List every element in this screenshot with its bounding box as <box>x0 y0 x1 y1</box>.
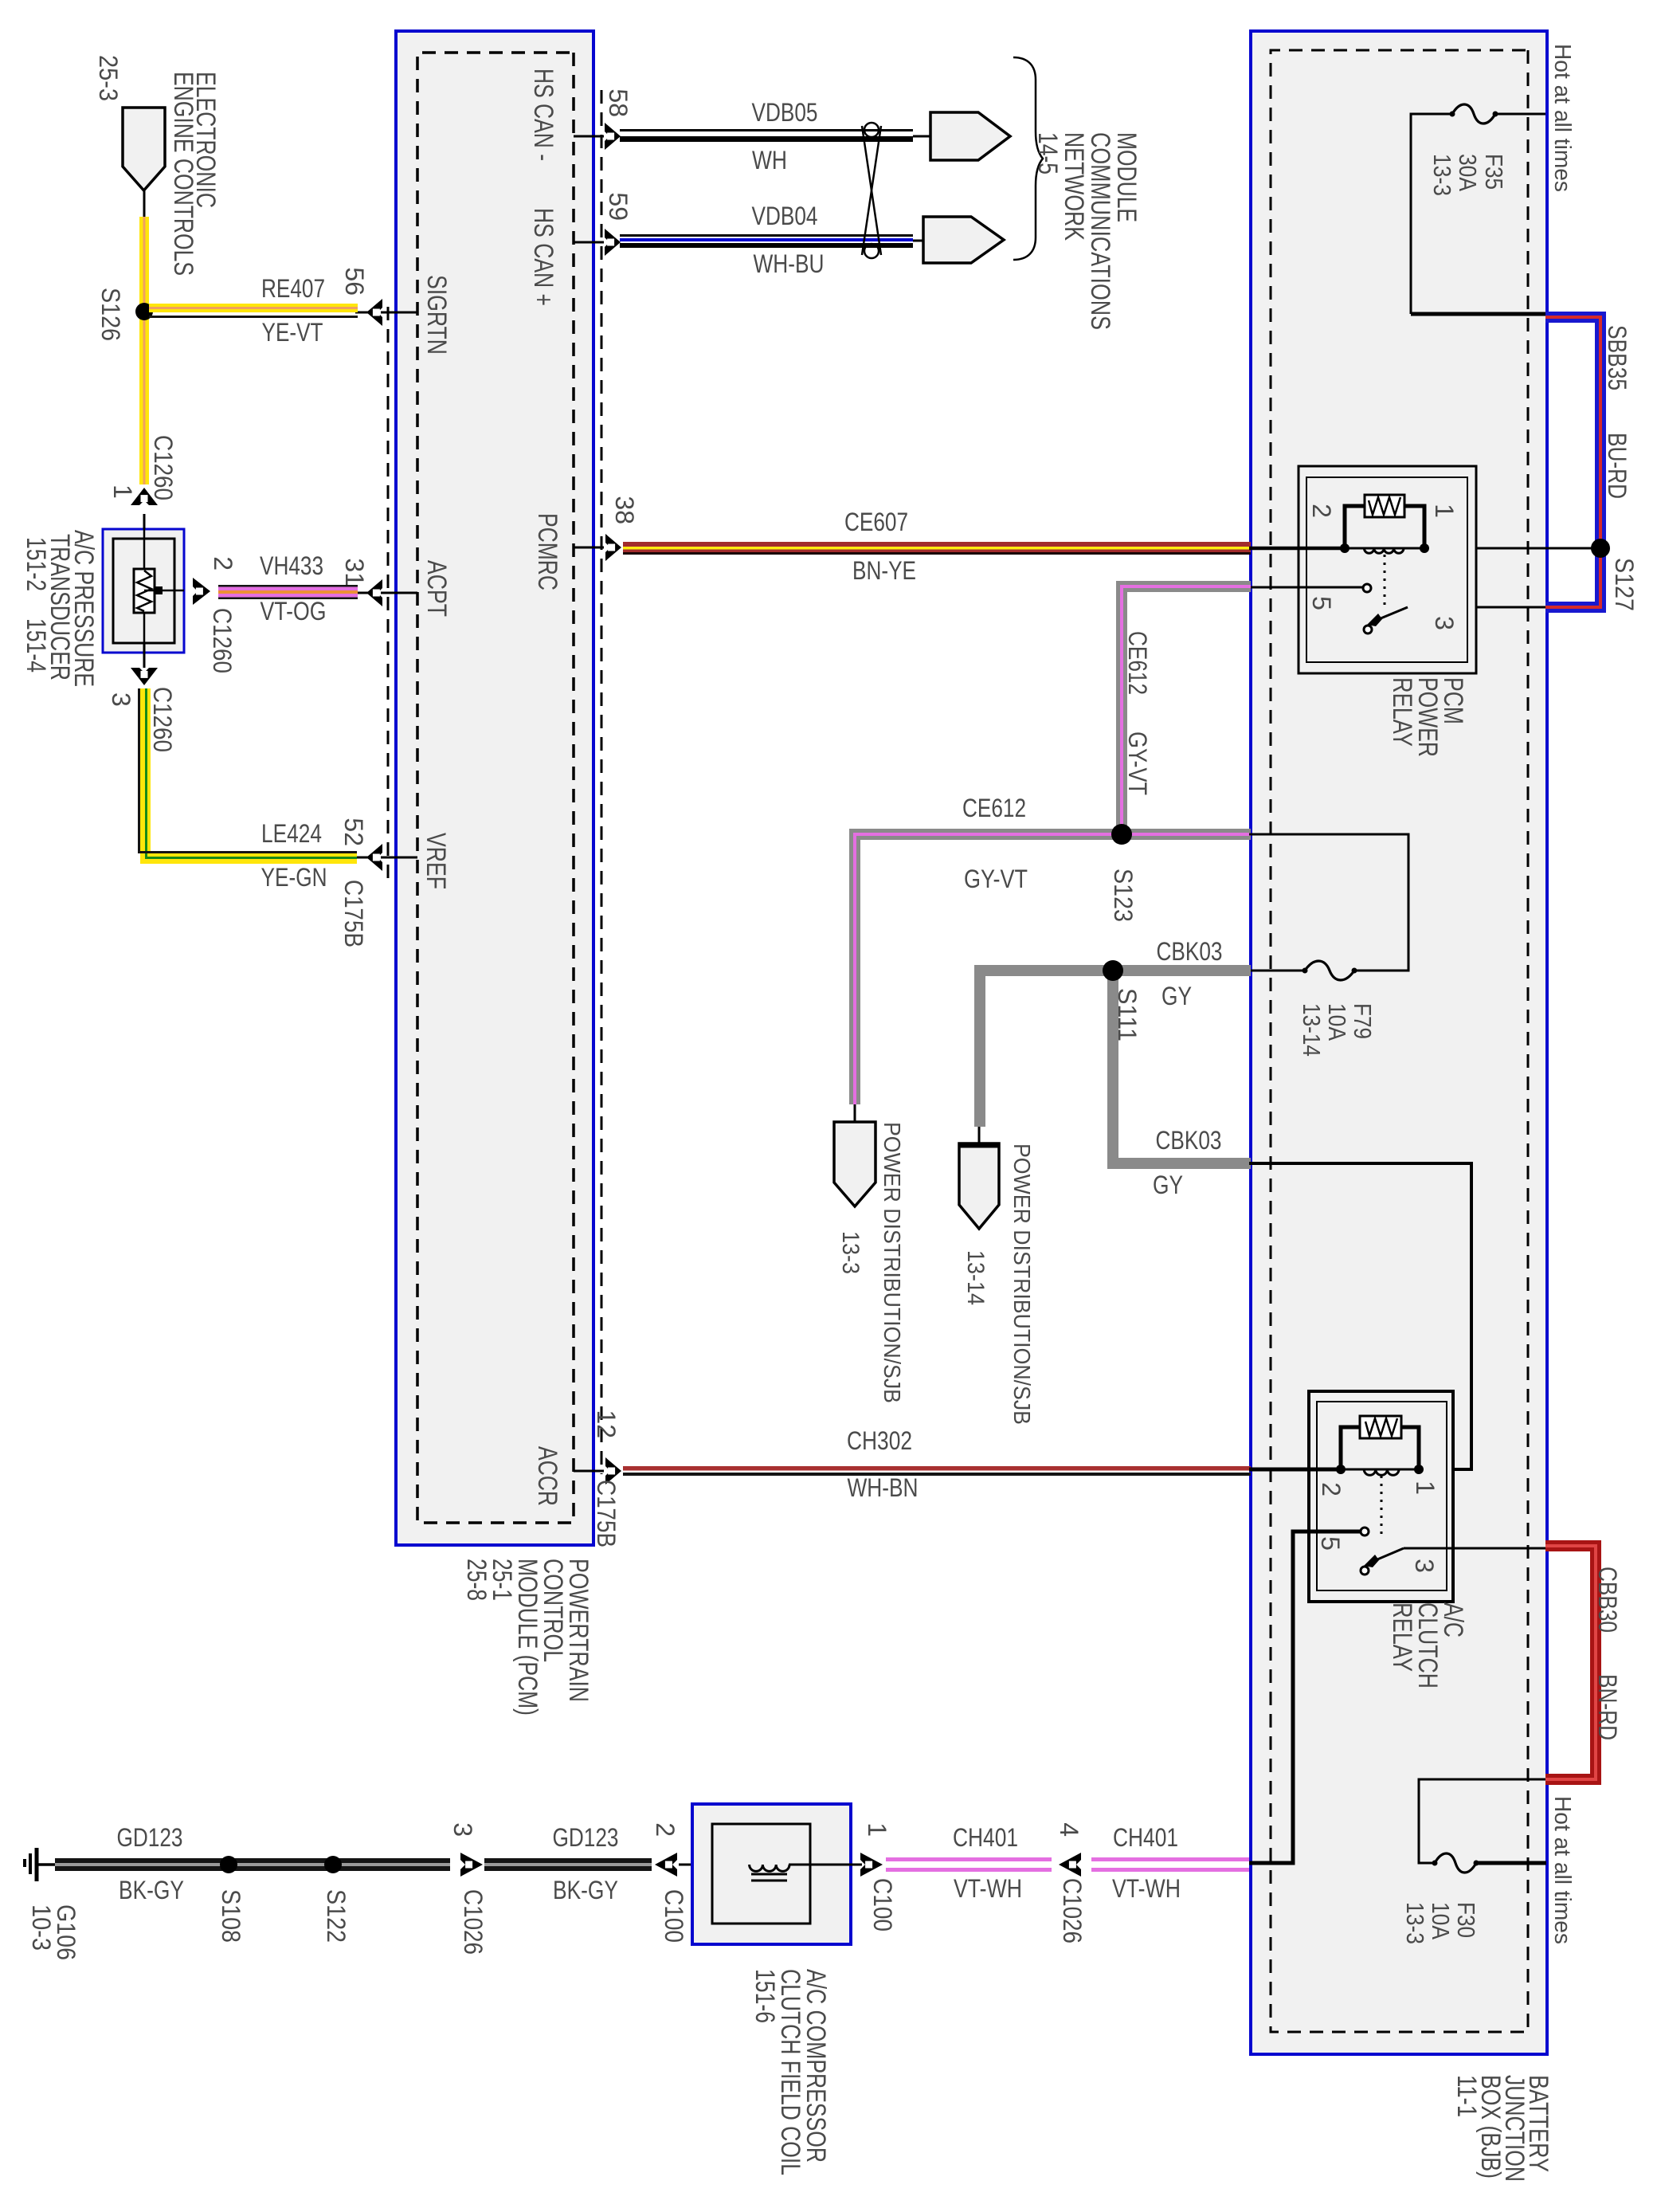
A/C clutch relay dotted link <box>1381 1476 1383 1538</box>
svg-text:BU-RD: BU-RD <box>1603 433 1632 499</box>
svg-text:11-1: 11-1 <box>1451 2075 1482 2117</box>
off-page arrow: ELECTRONIC ENGINE CONTROLS <box>123 108 165 190</box>
connector C100 pin 2 arrow <box>655 1853 677 1877</box>
svg-text:3: 3 <box>1410 1559 1439 1573</box>
svg-text:1: 1 <box>1430 504 1459 518</box>
wire VDB05 WH from PCM pin 58 <box>620 129 913 131</box>
svg-text:13-14: 13-14 <box>962 1250 989 1305</box>
svg-text:13-3: 13-3 <box>837 1231 864 1274</box>
svg-text:VT-WH: VT-WH <box>954 1874 1022 1903</box>
svg-text:VREF: VREF <box>421 833 451 889</box>
svg-text:13-14: 13-14 <box>1298 1003 1326 1057</box>
svg-text:F79: F79 <box>1349 1003 1377 1039</box>
PCM pin 12 arrow <box>605 1457 621 1484</box>
PCM power relay coil line pins 1-2 <box>1345 547 1424 550</box>
svg-text:13-3: 13-3 <box>1428 154 1456 196</box>
svg-text:1: 1 <box>863 1822 891 1837</box>
svg-text:CBK03: CBK03 <box>1156 1126 1222 1155</box>
svg-text:151-4: 151-4 <box>21 618 51 673</box>
PCM pin 38 stub <box>574 547 604 549</box>
PCM pin 31 arrow <box>366 579 382 606</box>
wire VDB04 WH-BU from PCM pin 59 <box>620 234 913 237</box>
fuse F35 <box>1452 104 1495 124</box>
svg-text:F30: F30 <box>1452 1902 1480 1938</box>
svg-text:C175B: C175B <box>592 1480 621 1547</box>
wire CE612 GY-VT from relay pin5 down and right to S123 <box>1122 586 1251 834</box>
svg-text:1: 1 <box>1411 1481 1440 1495</box>
svg-text:C175B: C175B <box>339 880 368 947</box>
svg-text:VT-WH: VT-WH <box>1112 1874 1181 1903</box>
PCM power relay inner box <box>1306 477 1467 662</box>
svg-text:CE607: CE607 <box>844 508 908 536</box>
transducer pin 1 arrow <box>131 488 158 505</box>
PCM pin 56 stub <box>381 312 417 314</box>
battery junction box (BJB) outer box <box>1251 31 1547 2054</box>
svg-text:S123: S123 <box>1109 869 1138 922</box>
wire CE612 GY-VT vertical through S123 to corner <box>855 834 1251 1104</box>
A/C clutch relay inner box <box>1317 1402 1447 1590</box>
A/C compressor clutch field coil inner box <box>712 1824 810 1924</box>
twisted pair symbol <box>862 126 881 255</box>
svg-text:2: 2 <box>651 1822 680 1837</box>
wire SBB35 BU-RD from F35 over box top to S127 and relay pin 3 <box>1545 317 1600 607</box>
svg-text:VH433: VH433 <box>260 551 323 580</box>
svg-text:NETWORK: NETWORK <box>1059 132 1089 241</box>
svg-text:RELAY: RELAY <box>1387 1602 1417 1672</box>
wire: SBB35 branch to PCM power relay pin 3 <box>1408 606 1545 609</box>
svg-text:CE612: CE612 <box>1123 631 1152 695</box>
splice S126 <box>135 303 153 320</box>
A/C clutch relay pin 5 contact <box>1361 1528 1369 1535</box>
splice S127 <box>1591 539 1610 558</box>
svg-text:VDB05: VDB05 <box>752 98 818 127</box>
svg-text:10A: 10A <box>1323 1003 1351 1041</box>
svg-text:YE-GN: YE-GN <box>261 863 327 892</box>
svg-text:3: 3 <box>1430 616 1459 630</box>
svg-text:COMMUNICATIONS: COMMUNICATIONS <box>1085 132 1115 330</box>
svg-text:3: 3 <box>107 692 135 707</box>
svg-text:VT-OG: VT-OG <box>260 597 327 626</box>
svg-text:S122: S122 <box>322 1889 351 1943</box>
ground symbol G106 <box>38 1863 55 1866</box>
wire: link to power distribution arrow 2 <box>978 1127 981 1145</box>
svg-text:SBB35: SBB35 <box>1603 325 1632 390</box>
A/C clutch relay switch arm with arrow <box>1372 1548 1404 1562</box>
svg-text:31: 31 <box>340 558 369 586</box>
svg-text:G106: G106 <box>52 1904 80 1960</box>
wire GD123 BK-GY ground segment <box>55 1858 450 1871</box>
wire S126 to A/C pressure transducer pin 1 (YE) <box>139 217 149 484</box>
svg-text:S111: S111 <box>1113 988 1142 1041</box>
powertrain control module (PCM) outer box <box>396 31 593 1545</box>
svg-text:WH-BN: WH-BN <box>848 1473 919 1502</box>
svg-text:151-2: 151-2 <box>21 537 51 591</box>
svg-text:HS CAN -: HS CAN - <box>528 69 558 161</box>
connector C175B dashed line (bottom) <box>387 307 390 880</box>
connector C1026 pin 3 arrow <box>460 1853 483 1877</box>
transducer internal wire <box>143 529 146 653</box>
svg-text:C100: C100 <box>868 1878 897 1932</box>
A/C clutch relay pin 1 junction <box>1414 1465 1424 1474</box>
svg-text:2: 2 <box>1307 504 1336 518</box>
svg-text:ACPT: ACPT <box>421 560 452 617</box>
svg-text:58: 58 <box>604 88 633 117</box>
PCM pin 12 stub <box>574 1470 604 1473</box>
wire CH302 WH-BN from PCM pin 12 to A/C clutch relay pin 2 <box>623 1466 1251 1471</box>
BJB inner dashed outline <box>1271 50 1528 2032</box>
PCM power relay switch arm with arrow <box>1375 607 1408 621</box>
PCM pin 59 stub <box>574 241 604 244</box>
svg-text:C1026: C1026 <box>459 1889 488 1955</box>
A/C compressor clutch field coil outer box <box>692 1804 851 1944</box>
svg-text:12: 12 <box>592 1410 621 1438</box>
A/C clutch relay resistor <box>1360 1416 1401 1438</box>
svg-text:25-8: 25-8 <box>461 1559 492 1601</box>
PCM power relay resistor <box>1365 495 1404 517</box>
clutch field coil core lines <box>751 1873 787 1876</box>
svg-text:1: 1 <box>108 484 137 499</box>
A/C clutch relay coil line pins 1-2 <box>1341 1469 1419 1471</box>
svg-text:BN-RD: BN-RD <box>1593 1674 1622 1740</box>
wire: link to power distribution arrow 1 <box>854 1104 856 1124</box>
off-page arrow: POWER DISTRIBUTION/SJB 13-3 <box>834 1122 876 1206</box>
wire: CBB30 into BJB to fuse F30 <box>1419 1779 1545 1863</box>
wire: S123 into BJB to fuse F79 <box>1249 834 1408 971</box>
A/C clutch relay coil bumps <box>1364 1469 1399 1475</box>
PCM power relay pin 2 junction <box>1340 543 1349 553</box>
svg-text:GY-VT: GY-VT <box>964 865 1028 893</box>
svg-text:C1260: C1260 <box>208 608 237 673</box>
connector C1026 pin 4 arrow <box>1059 1853 1081 1877</box>
svg-text:BK-GY: BK-GY <box>119 1876 184 1904</box>
fuse F79 <box>1305 961 1354 980</box>
PCM power relay pin 5 contact <box>1363 584 1371 592</box>
svg-text:C1260: C1260 <box>148 687 177 752</box>
network connector pentagon 1 <box>930 112 1010 160</box>
svg-text:10A: 10A <box>1427 1902 1455 1939</box>
svg-text:WH-BU: WH-BU <box>754 249 825 278</box>
svg-text:SIGRTN: SIGRTN <box>421 275 452 355</box>
svg-text:56: 56 <box>340 267 369 296</box>
network connector pentagon 2 <box>923 217 1004 263</box>
wire: PCM relay pin 5 to CE612 exit <box>1249 586 1363 589</box>
svg-text:CH401: CH401 <box>1113 1823 1178 1852</box>
svg-text:CE612: CE612 <box>962 794 1026 822</box>
wire RE407 YE-VT from S126 to PCM pin 56 <box>149 304 358 312</box>
svg-text:WH: WH <box>752 146 787 175</box>
wire LE424 YE-GN from transducer pin 3 to PCM pin 52 <box>146 688 358 859</box>
svg-text:GD123: GD123 <box>117 1823 183 1852</box>
splice S111 <box>1103 960 1123 981</box>
svg-text:5: 5 <box>1316 1536 1345 1551</box>
svg-text:BK-GY: BK-GY <box>553 1876 618 1904</box>
clutch field coil winding <box>750 1865 789 1871</box>
wire: C100 to clutch coil box <box>679 1864 789 1866</box>
transducer pressure element <box>134 569 155 613</box>
svg-text:LE424: LE424 <box>261 819 322 848</box>
wire GD123 BK-GY segment 2 <box>484 1858 652 1871</box>
wire: A/C relay pin 5 to CH401 exit <box>1249 1532 1361 1863</box>
svg-text:GD123: GD123 <box>553 1823 619 1852</box>
svg-text:CH401: CH401 <box>953 1823 1018 1852</box>
splice S123 <box>1111 824 1132 845</box>
svg-text:BN-YE: BN-YE <box>852 556 916 585</box>
wire: A/C relay pin 3 to CBB30 <box>1404 1547 1545 1550</box>
transducer pin 2 arrow <box>193 578 210 605</box>
splice S122 <box>324 1856 342 1873</box>
wire CBK03 GY branch from S111 to A/C relay pin 1 feed <box>1113 971 1251 1163</box>
A/C pressure transducer outer box <box>103 529 184 653</box>
wire CH401 VT-WH segment A <box>886 1857 1052 1861</box>
svg-text:14-5: 14-5 <box>1032 132 1063 175</box>
connector C175B dashed line (top) <box>601 90 603 1474</box>
transducer pin 1 link <box>143 514 146 529</box>
wire CH401 VT-WH segment B <box>1091 1857 1249 1861</box>
svg-text:ENGINE CONTROLS: ENGINE CONTROLS <box>168 72 198 276</box>
PCM power relay coil bumps <box>1364 548 1404 553</box>
svg-text:151-6: 151-6 <box>750 1969 780 2023</box>
PCM pin 58 stub <box>574 135 604 138</box>
PCM pin 38 arrow <box>605 534 621 561</box>
svg-text:HS CAN +: HS CAN + <box>528 208 558 306</box>
wire CE607 BN-YE from PCM pin 38 to PCM power relay pin 2 <box>623 542 1251 547</box>
svg-text:25-3: 25-3 <box>94 55 123 101</box>
svg-text:C1026: C1026 <box>1058 1878 1087 1943</box>
wire: arrow to S126 yellow wire <box>143 190 146 217</box>
svg-text:2: 2 <box>1317 1482 1346 1496</box>
svg-text:38: 38 <box>610 496 639 524</box>
PCM pin 58 arrow <box>605 123 621 150</box>
PCM pin 52 stub <box>381 857 417 859</box>
wire: link to network connector 2 <box>913 240 923 242</box>
splice S108 <box>220 1856 237 1873</box>
wire CBB30 BN-RD from relay pin3 over box top to F30 <box>1545 1546 1596 1779</box>
svg-text:3: 3 <box>449 1822 477 1837</box>
A/C clutch relay pin 2 junction <box>1336 1465 1346 1474</box>
svg-text:F35: F35 <box>1480 154 1508 190</box>
wire: CBK03 inside BJB to A/C clutch relay pin 1 <box>1249 1163 1471 1469</box>
svg-text:MODULE: MODULE <box>1111 132 1142 222</box>
wire: F35 to SBB35 exit <box>1411 114 1452 314</box>
PCM power relay pin 1 junction <box>1420 543 1429 553</box>
svg-text:S127: S127 <box>1610 558 1639 611</box>
svg-text:S126: S126 <box>96 288 125 341</box>
svg-text:CBB30: CBB30 <box>1593 1567 1622 1633</box>
svg-text:YE-VT: YE-VT <box>262 318 323 347</box>
svg-text:POWER DISTRIBUTION/SJB: POWER DISTRIBUTION/SJB <box>1009 1143 1034 1425</box>
svg-text:VDB04: VDB04 <box>752 202 818 230</box>
svg-text:2: 2 <box>209 556 237 571</box>
svg-text:30A: 30A <box>1454 154 1482 191</box>
svg-text:PCMRC: PCMRC <box>532 513 562 590</box>
off-page arrow: POWER DISTRIBUTION/SJB 13-14 <box>959 1143 999 1229</box>
svg-text:Hot at all times: Hot at all times <box>1549 44 1575 192</box>
svg-text:C100: C100 <box>660 1889 688 1943</box>
svg-text:5: 5 <box>1307 596 1336 610</box>
svg-text:GY: GY <box>1161 982 1192 1010</box>
connector C100 pin 1 arrow <box>860 1853 883 1877</box>
PCM inner dashed outline <box>417 53 574 1523</box>
transducer pin 2 branch <box>144 590 184 592</box>
svg-text:13-3: 13-3 <box>1401 1902 1429 1944</box>
svg-text:RE407: RE407 <box>261 274 325 303</box>
wire: S127 to PCM power relay pin 1 (coil) <box>1424 547 1600 550</box>
svg-text:59: 59 <box>604 192 633 221</box>
svg-text:GY-VT: GY-VT <box>1123 731 1152 795</box>
svg-text:S108: S108 <box>217 1889 245 1943</box>
svg-text:POWER DISTRIBUTION/SJB: POWER DISTRIBUTION/SJB <box>879 1122 904 1403</box>
wire: link to network connector 1 <box>913 135 930 138</box>
wire: F30 to Hot at all times <box>1476 1861 1546 1865</box>
wire: F79 to CBK03 exit <box>1249 970 1305 972</box>
PCM pin 56 arrow <box>366 299 382 326</box>
A/C pressure transducer inner box <box>113 539 174 643</box>
fuse F30 <box>1435 1853 1476 1873</box>
PCM pin 31 stub <box>381 592 417 594</box>
A/C clutch relay outer box <box>1309 1391 1453 1602</box>
wire CBK03 GY from F79 down through S111 to corner <box>980 971 1251 1127</box>
PCM power relay dotted link coil to switch <box>1384 555 1386 605</box>
PCM pin 59 arrow <box>605 229 621 256</box>
wire: clutch coil to C100 pin 1 <box>789 1864 862 1866</box>
svg-text:C1260: C1260 <box>149 435 178 500</box>
svg-text:CBK03: CBK03 <box>1157 937 1223 966</box>
PCM pin 52 arrow <box>366 844 382 871</box>
svg-text:RELAY: RELAY <box>1387 677 1417 747</box>
svg-text:ACCR: ACCR <box>532 1446 562 1506</box>
svg-text:4: 4 <box>1055 1822 1083 1837</box>
svg-text:Hot at all times: Hot at all times <box>1549 1796 1575 1944</box>
svg-text:52: 52 <box>339 818 368 846</box>
brace for module communications network <box>1013 57 1043 260</box>
A/C clutch relay resistor branch wires <box>1341 1427 1419 1469</box>
transducer pin 3 link <box>143 643 146 668</box>
svg-text:CH302: CH302 <box>847 1426 912 1455</box>
wire: F35 input from Hot at all times <box>1495 113 1545 116</box>
transducer pin 3 arrow <box>131 668 158 685</box>
svg-text:10-3: 10-3 <box>27 1904 56 1951</box>
svg-text:GY: GY <box>1153 1171 1183 1199</box>
wire VH433 VT-OG from transducer pin 2 to PCM pin 31 <box>218 585 358 587</box>
PCM power relay outer box <box>1299 466 1476 673</box>
PCM power relay resistor branch wires <box>1345 506 1424 548</box>
